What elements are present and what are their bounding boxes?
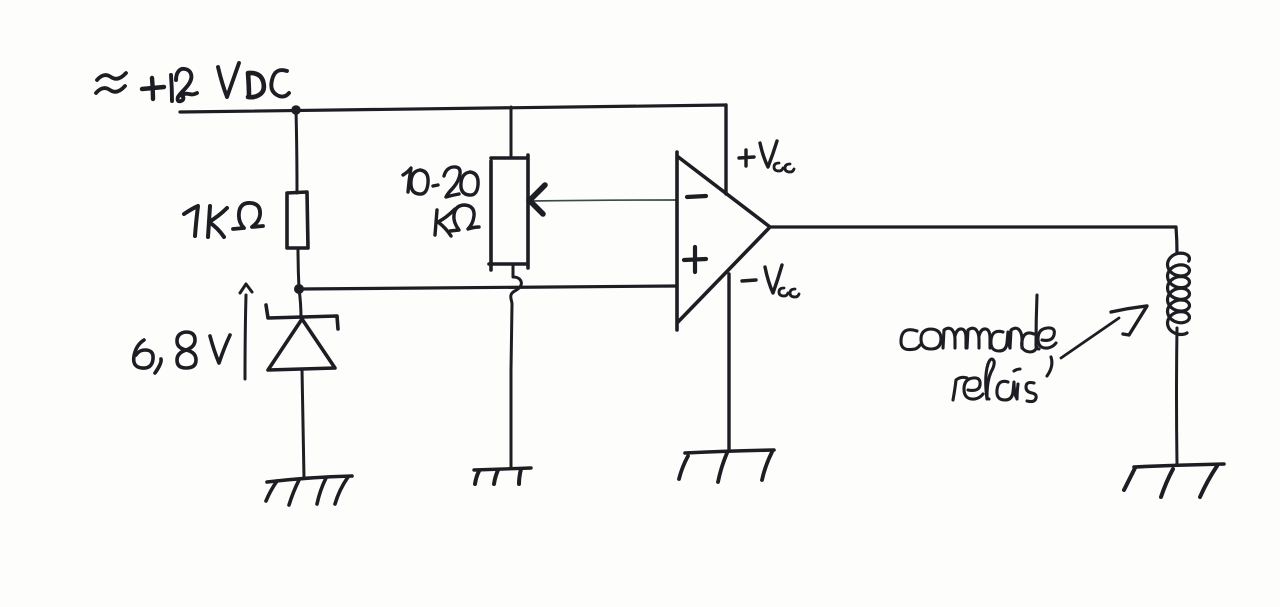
op-amp U1 [677, 152, 770, 330]
junction node A [291, 105, 301, 115]
arrow 6,8V [240, 284, 252, 379]
wire +12V rail [180, 105, 726, 112]
label 10-20 KΩ [403, 167, 479, 236]
potentiometer P1 [489, 155, 528, 270]
wire output [770, 225, 1176, 228]
wire rail to pot top [510, 107, 513, 158]
inductor L1 relay coil [1168, 253, 1190, 334]
ground (pot) [474, 468, 531, 484]
label +Vcc [739, 141, 794, 172]
wire R1 top lead [296, 110, 297, 193]
wire +Vcc pin [724, 105, 727, 194]
ground (zener) [266, 476, 352, 505]
wire coil to ground [1175, 328, 1179, 464]
net label +12VDC [96, 63, 289, 101]
label commande relais [901, 295, 1056, 402]
wire node B to op-amp plus input [299, 286, 677, 289]
wire -Vcc pin [727, 274, 730, 451]
wire node B to zener top [299, 289, 301, 318]
junction node B [294, 284, 304, 294]
pot wiper arrow [529, 185, 676, 214]
wire R1 bottom lead [298, 248, 299, 289]
wire zener to ground [302, 369, 304, 478]
ground (relay) [1124, 464, 1224, 497]
wire output corner down to coil [1176, 227, 1177, 253]
ground (op-amp) [679, 450, 774, 482]
label -Vcc [742, 265, 799, 297]
wire pot bottom with crossover hop [511, 266, 522, 467]
arrow to relay coil [1061, 306, 1147, 358]
label 1KΩ [184, 203, 263, 237]
zener diode D1 [266, 305, 338, 370]
resistor R1 [287, 192, 308, 248]
label 6,8V [134, 332, 230, 373]
